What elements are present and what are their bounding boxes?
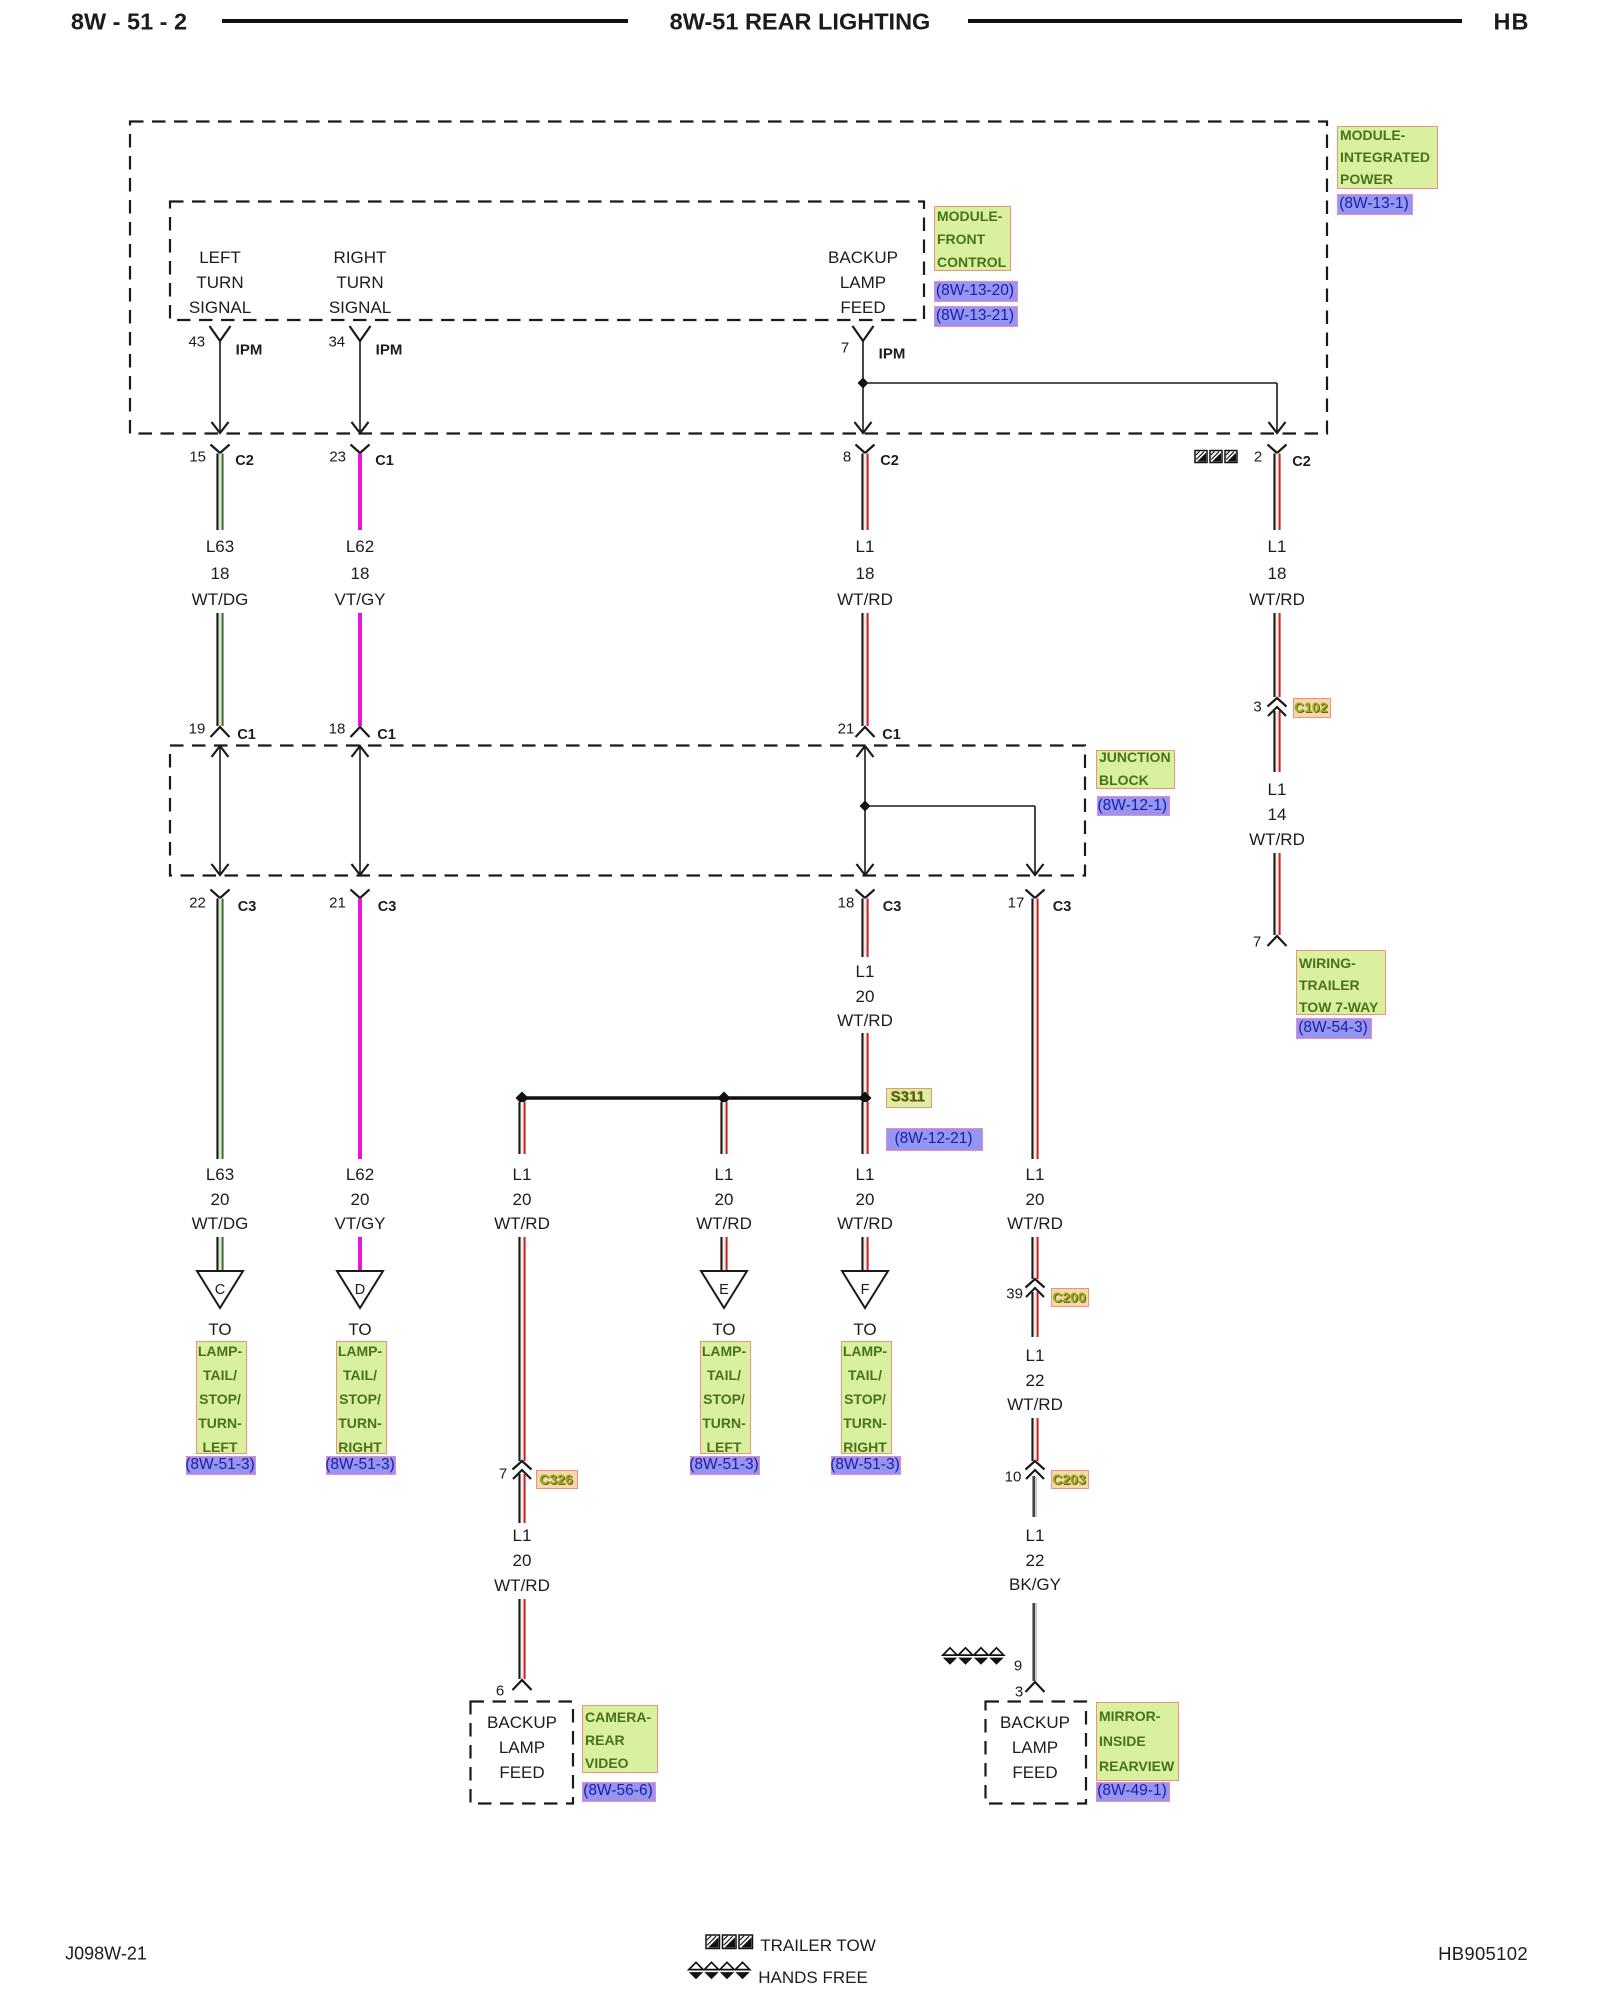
mirror backup lamp feed dashed box [986, 1702, 1087, 1804]
connector C1 pin 18 [351, 727, 370, 737]
off-page arrow D [337, 1271, 383, 1308]
label module-integrated power [1337, 126, 1438, 189]
wire BK/GY below C203 [1032, 1476, 1035, 1517]
wire to arrow F [861, 1237, 863, 1271]
link 8W-13-20 [934, 281, 1018, 302]
pin number 23 [329, 448, 346, 465]
wire label L1 22 BK/GY [1026, 1526, 1045, 1546]
splice node S311 [859, 1092, 872, 1105]
wire label L1 20 WT/RD camera [513, 1526, 532, 1546]
pin number 19 [189, 721, 206, 738]
wire C326 to camera [518, 1474, 520, 1523]
connector C203 pin 10 [1026, 1461, 1045, 1470]
wire label L1 22 WT/RD [1026, 1346, 1045, 1366]
module-integrated power dashed box [130, 122, 1327, 434]
connector C1 pin 19 [211, 727, 230, 737]
link 8W-54-3 [1296, 1018, 1372, 1039]
camera box pin 6 connector [513, 1680, 532, 1690]
wire into camera box [518, 1599, 520, 1679]
header rule right [968, 19, 1462, 23]
connector label C1 [375, 453, 394, 469]
trailer tow marks [1195, 451, 1207, 463]
wire L1 to C102 [1273, 613, 1275, 697]
wire label L1 20 WT/RD b [715, 1165, 734, 1185]
wire L1 20 WT/RD right long [1031, 899, 1033, 1160]
pin number 10 [1005, 1469, 1022, 1486]
wire IPM 7 down to junction [862, 341, 864, 433]
off-page arrow letter C [215, 1282, 225, 1298]
pin number 17 [1008, 895, 1025, 912]
off-page TO text x=865 [853, 1320, 876, 1340]
pin number 7 C326 [499, 1465, 507, 1482]
connector label C2 mid [880, 453, 899, 469]
label lamp-tail/stop/turn-left x=724 [700, 1341, 751, 1454]
label lamp-tail/stop/turn-right x=865 [841, 1341, 892, 1454]
wire label to C203 [1031, 1418, 1033, 1461]
pin number 18 [329, 721, 346, 738]
mirror box pin 3 connector [1026, 1682, 1045, 1692]
connector label C3 18 [883, 899, 902, 915]
IPM pin 34 connector [350, 326, 371, 341]
junction block dashed box [170, 746, 1085, 876]
wire IPM 43 to C2 [219, 341, 221, 432]
wire to C326 [518, 1237, 520, 1461]
label junction block [1096, 750, 1175, 789]
link 8W-12-21 [886, 1128, 983, 1151]
pin number 9 [1014, 1658, 1022, 1675]
connector label C1 18 [377, 727, 396, 743]
wire C200 to label [1031, 1292, 1033, 1337]
wire L1 14 WT/RD lower [1273, 853, 1275, 935]
off-page arrow letter D [355, 1282, 365, 1298]
wire L63 to junction block [216, 613, 218, 726]
page header title: 8W-51 REAR LIGHTING [670, 9, 931, 36]
legend hands free text [758, 1968, 868, 1988]
pin number 21 [838, 721, 855, 738]
link 8W-13-1 [1337, 194, 1413, 215]
connector C2 pin 2 [1268, 445, 1287, 454]
connector C1 pin 21 [856, 727, 875, 737]
pin number 15 [189, 448, 206, 465]
connector C3 pin 22 [211, 890, 230, 899]
splice node middle [718, 1092, 731, 1105]
connector label C1 21 [882, 727, 901, 743]
label camera-rear video [582, 1705, 658, 1773]
connector C326 pin 7 [513, 1461, 532, 1470]
pin number 7 trailer [1253, 934, 1261, 951]
splice stub right [861, 1102, 863, 1154]
header rule left [222, 19, 628, 23]
IPM pin 43 connector [210, 326, 231, 341]
wire label L1 20 WT/RD d [1026, 1165, 1045, 1185]
splice stub left [518, 1102, 520, 1154]
pin label IPM 34 [376, 342, 403, 359]
off-page arrow letter F [861, 1282, 870, 1298]
wire label L1 18 WT/RD [856, 537, 875, 557]
connector C3 pin 21 [351, 890, 370, 899]
footer right HB905102 [1438, 1943, 1528, 1965]
wire BK/GY to mirror box [1032, 1603, 1035, 1681]
wire junction to right C2 branch [863, 382, 1277, 384]
off-page arrow E [701, 1271, 747, 1308]
trailer tow 7-way pin 7 connector [1268, 936, 1287, 946]
connector label C3 21 [378, 899, 397, 915]
wire to C200 [1031, 1237, 1033, 1279]
junction block branch node [860, 801, 871, 812]
link 8W-49-1 [1096, 1782, 1170, 1803]
connector link C102 [1293, 698, 1332, 718]
connector C2 pin 8 [856, 445, 875, 454]
link 8W-56-6 [582, 1782, 656, 1803]
module inner text right turn signal [334, 248, 387, 268]
splice stub middle [720, 1102, 722, 1154]
link 8W-12-1 [1097, 796, 1171, 816]
wire label L63 20 WT/DG [206, 1165, 234, 1185]
off-page TO text x=360 [348, 1320, 371, 1340]
wire label L62 20 VT/GY [346, 1165, 374, 1185]
wire L63 20 WT/DG long [216, 899, 218, 1160]
off-page arrow C [197, 1271, 243, 1308]
wire label L1 18 WT/RD right [1268, 537, 1287, 557]
wire L63 18 WT/DG upper [216, 454, 218, 531]
pin number 3 C102 [1253, 699, 1261, 716]
connector label C1 19 [237, 727, 256, 743]
connector label C3 17 [1053, 899, 1072, 915]
page header left: 8W - 51 - 2 [71, 9, 187, 36]
connector C2 pin 15 [211, 445, 230, 454]
wire L1 to junction block [861, 613, 863, 726]
wire L62 20 VT/GY long [358, 899, 362, 1160]
pin label IPM 7 [879, 346, 906, 363]
pin number 34 [328, 334, 345, 351]
junction block path pin19-pin22 [219, 747, 221, 874]
connector link C326 [536, 1470, 578, 1489]
pin number 18 c3 [838, 895, 855, 912]
wire label L63 18 WT/DG [206, 537, 234, 557]
wire L1 20 WT/RD label to splice [861, 1033, 863, 1096]
pin number 22 [189, 895, 206, 912]
module-front control dashed box [170, 202, 924, 321]
junction node on backup lamp feed [858, 378, 869, 389]
label wiring-trailer tow 7-way [1296, 950, 1386, 1015]
connector label C3 22 [238, 899, 257, 915]
connector C1 pin 23 [351, 445, 370, 454]
wire L1 18 WT/RD right upper [1273, 454, 1275, 531]
off-page arrow letter E [719, 1282, 729, 1298]
wire L1 20 WT/RD to label [861, 899, 863, 958]
module inner text backup lamp feed [828, 248, 898, 268]
page header right: HB [1494, 9, 1530, 36]
link 8W-51-3 x=220 [186, 1456, 256, 1475]
off-page TO text x=724 [712, 1320, 735, 1340]
wire L62 to junction block [358, 613, 362, 726]
off-page TO text x=220 [208, 1320, 231, 1340]
connector label C2 right [1292, 454, 1311, 470]
pin number 2 [1254, 449, 1262, 466]
connector C200 pin 39 [1026, 1279, 1045, 1288]
label lamp-tail/stop/turn-left x=220 [196, 1341, 247, 1454]
connector C3 pin 18 [856, 890, 875, 899]
wire C102 to label [1273, 711, 1275, 772]
mirror box text [1000, 1713, 1070, 1733]
camera box text [487, 1713, 557, 1733]
wire to arrow E [720, 1237, 722, 1271]
link 8W-51-3 x=724 [690, 1456, 760, 1475]
wire label L1 14 WT/RD [1268, 780, 1287, 800]
label lamp-tail/stop/turn-right x=360 [336, 1341, 387, 1454]
footer left J098W-21 [65, 1944, 147, 1965]
wire label L1 20 WT/RD a [513, 1165, 532, 1185]
splice node left [516, 1092, 529, 1105]
splice S311 bus [522, 1096, 865, 1100]
connector C3 pin 17 [1026, 890, 1045, 899]
legend trailer tow text [760, 1936, 876, 1956]
pin number 8 [843, 448, 851, 465]
pin number 6 [496, 1683, 504, 1700]
wire to arrow C [216, 1237, 218, 1271]
module inner text left turn signal [199, 248, 241, 268]
legend trailer tow marks [706, 1935, 720, 1949]
label splice S311 [886, 1088, 932, 1109]
wire L62 18 VT/GY upper [358, 454, 362, 531]
connector C102 pin 3 [1268, 698, 1287, 707]
wire label L1 20 WT/RD c [856, 1165, 875, 1185]
pin number 21 c3 [329, 895, 346, 912]
connector link C203 [1051, 1470, 1089, 1489]
IPM pin 7 connector [853, 326, 874, 341]
pin number 3 mirror [1015, 1684, 1023, 1701]
off-page arrow F [842, 1271, 888, 1308]
wire IPM 34 to C1 [359, 341, 361, 432]
pin number 39 [1006, 1286, 1023, 1303]
connector label C2 [235, 453, 254, 469]
wire L1 18 WT/RD upper [861, 454, 863, 531]
label mirror-inside rearview [1096, 1702, 1179, 1781]
wire to arrow D [358, 1237, 362, 1271]
pin label IPM 43 [236, 342, 263, 359]
wire label L62 18 VT/GY [346, 537, 374, 557]
connector link C200 [1051, 1288, 1089, 1307]
camera backup lamp feed dashed box [471, 1702, 574, 1804]
link 8W-51-3 x=360 [326, 1456, 396, 1475]
legend hands free marks [689, 1962, 703, 1979]
pin number 43 [188, 334, 205, 351]
link 8W-51-3 x=865 [831, 1456, 901, 1475]
wire label L1 20 WT/RD above splice [856, 962, 875, 982]
junction block path pin21-pin18 [864, 747, 866, 874]
junction block path pin18-pin21 [359, 747, 361, 874]
link 8W-13-21 [934, 306, 1018, 327]
hands free marks [943, 1648, 957, 1665]
label module-front control [934, 206, 1011, 271]
pin number 7 [841, 340, 849, 357]
